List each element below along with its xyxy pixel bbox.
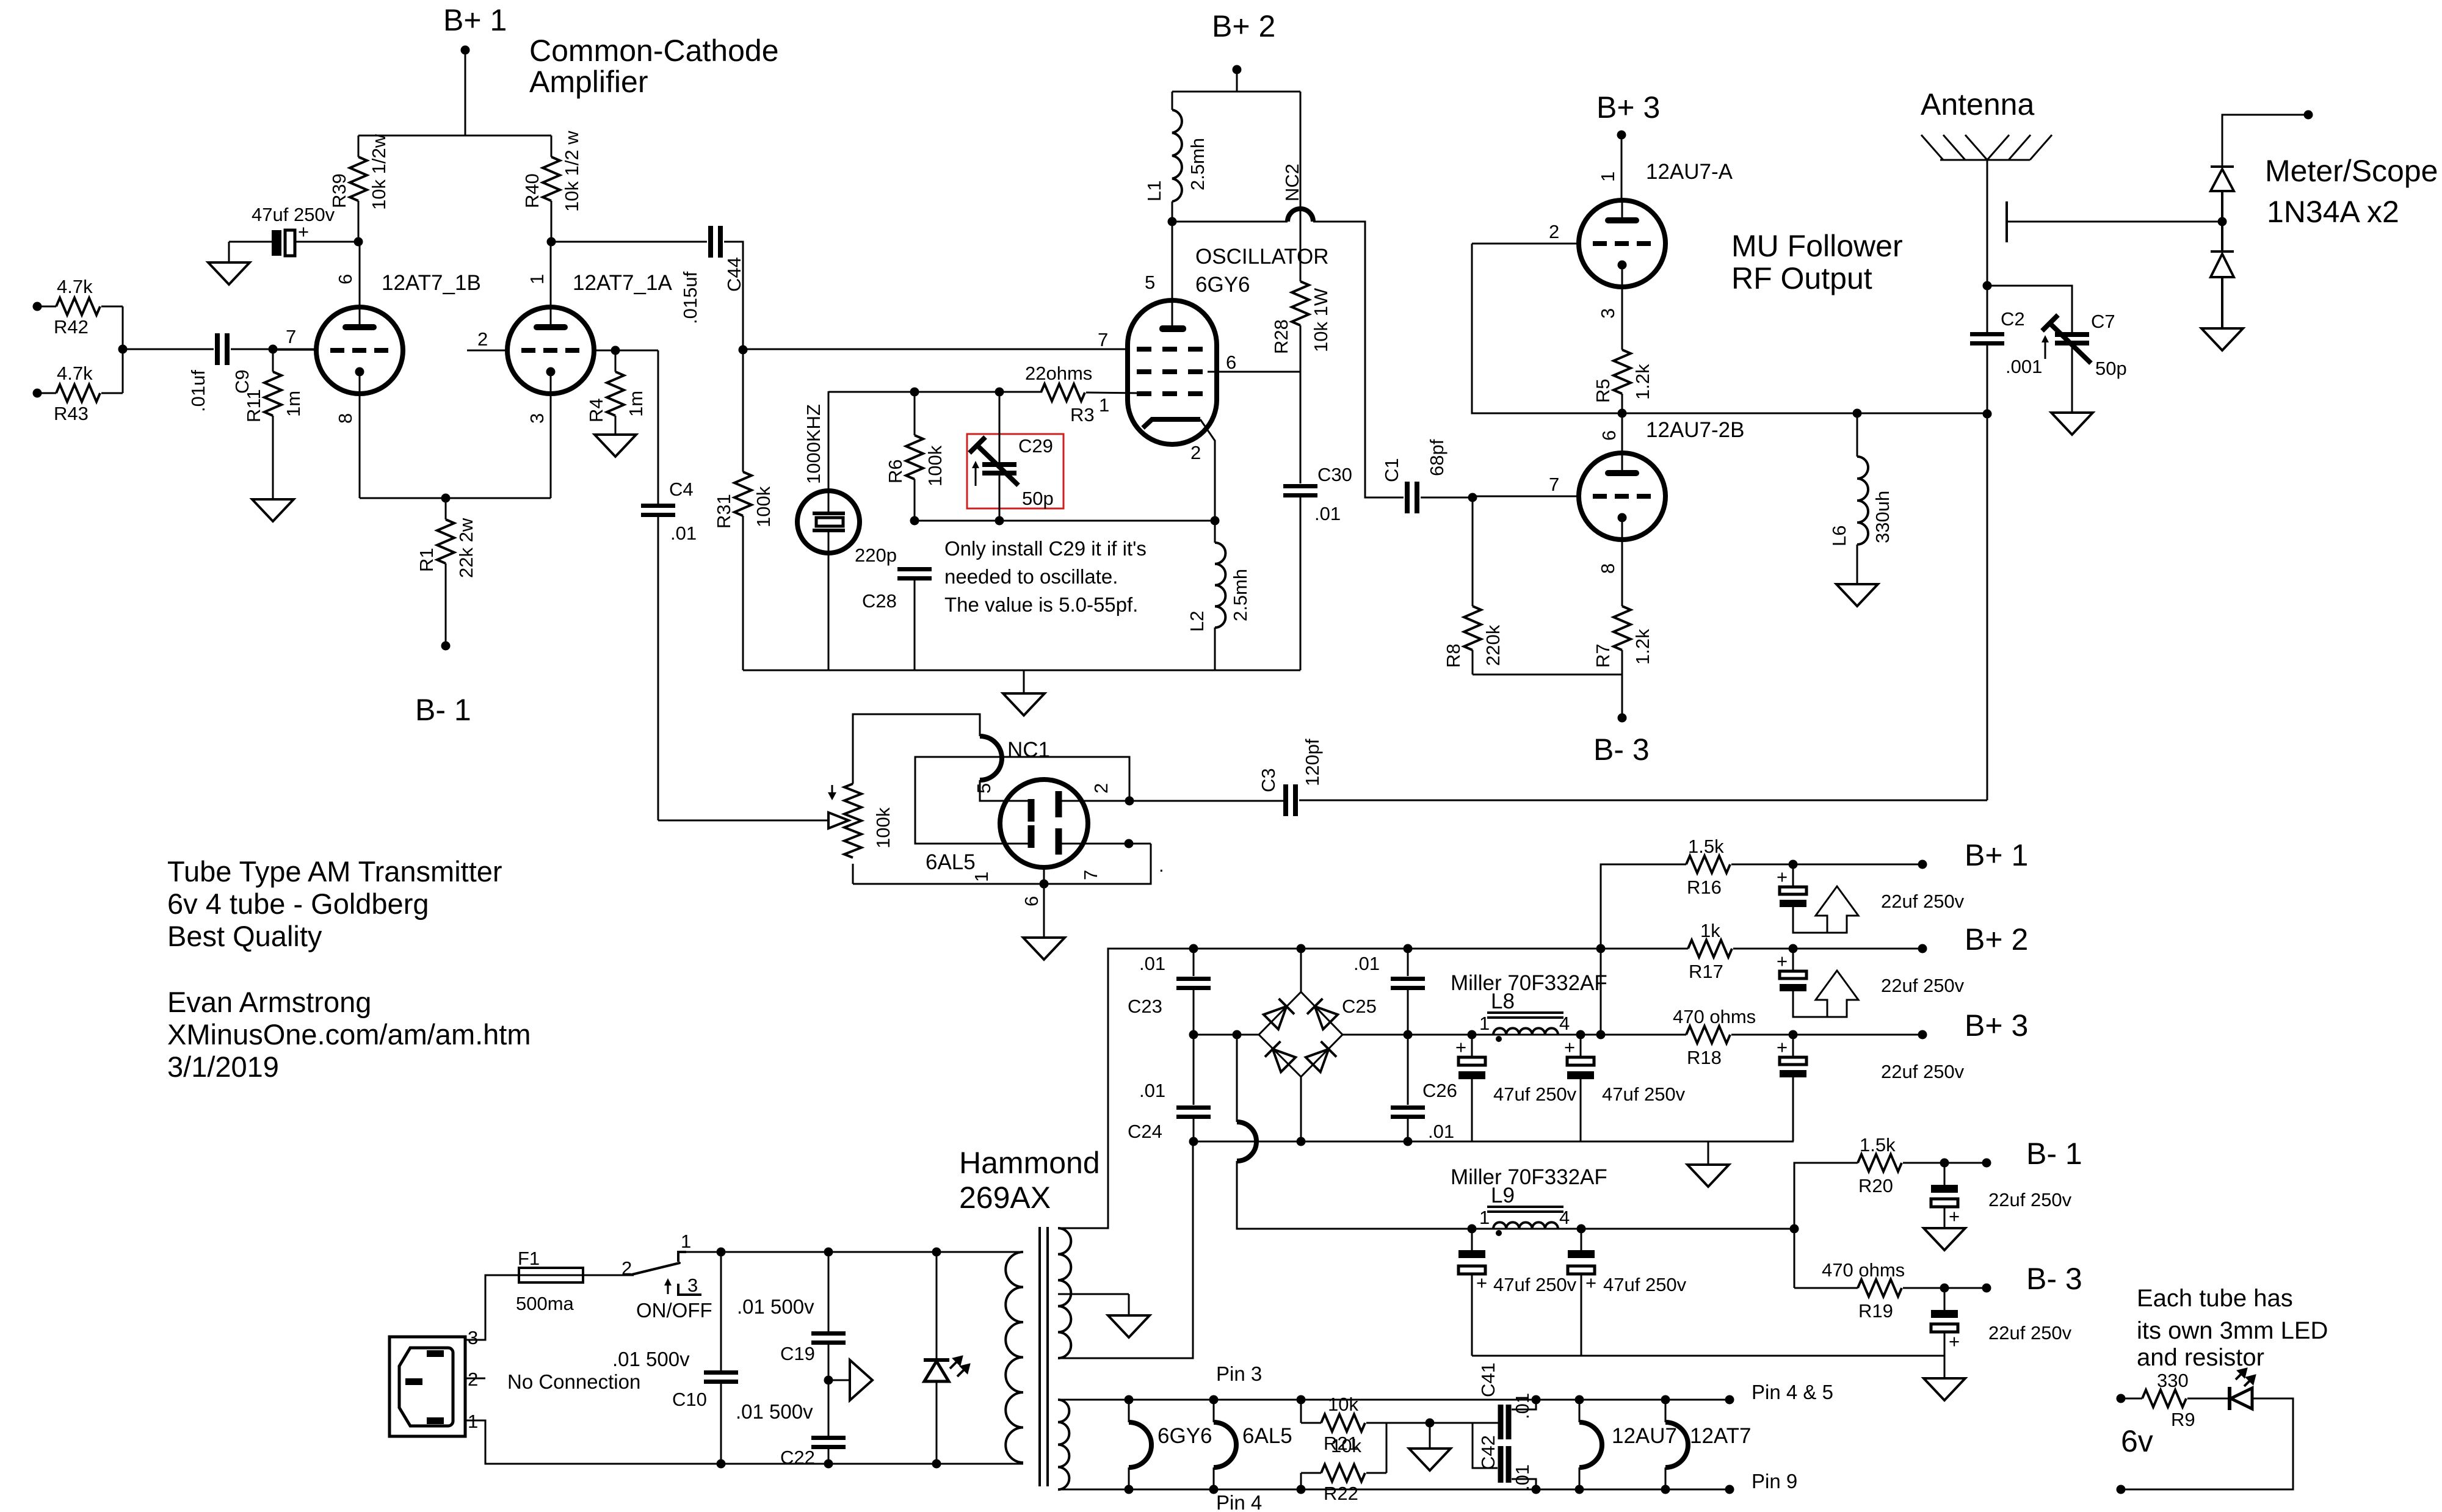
svg-text:R17: R17 <box>1689 961 1723 982</box>
wire oscillator ground bus <box>743 670 1300 671</box>
tube 12AU7-2B <box>1473 413 1665 606</box>
capacitor C41 .01 <box>1477 1362 1536 1439</box>
svg-text:22uf 250v: 22uf 250v <box>1988 1322 2072 1344</box>
svg-text:.: . <box>1159 855 1164 876</box>
svg-text:.01 500v: .01 500v <box>737 1295 814 1318</box>
resistor R19 470 ohms <box>1794 1259 1987 1322</box>
capacitor C1 68pf <box>1381 439 1473 513</box>
node grid 1B <box>269 345 278 354</box>
svg-text:L2: L2 <box>1186 611 1208 632</box>
svg-text:B- 3: B- 3 <box>1593 732 1650 767</box>
ground (B-1 cap) <box>1924 1228 1965 1250</box>
heater 6AL5 <box>1214 1400 1292 1489</box>
svg-text:R9: R9 <box>2171 1409 2195 1430</box>
transformer primary winding <box>1005 1252 1023 1463</box>
svg-text:2: 2 <box>621 1257 632 1279</box>
svg-text:R40: R40 <box>521 173 543 208</box>
diode bridge D bottom-right <box>1305 1041 1336 1073</box>
node C44 output junction <box>739 345 748 355</box>
svg-text:RF Output: RF Output <box>1731 261 1872 295</box>
wire antenna lead <box>1987 160 1988 332</box>
svg-text:100k: 100k <box>753 486 774 527</box>
node B- 3 (mu follower) <box>1593 714 1650 767</box>
svg-text:.015uf: .015uf <box>679 271 701 324</box>
wire DC minus rail <box>1189 1030 1259 1040</box>
node B- 1 (amp) <box>415 642 471 728</box>
svg-text:C28: C28 <box>862 590 897 612</box>
svg-text:C42: C42 <box>1477 1435 1499 1470</box>
svg-text:6AL5: 6AL5 <box>926 850 976 874</box>
svg-text:7: 7 <box>1080 870 1101 880</box>
node cathode junction <box>441 494 451 503</box>
svg-text:1: 1 <box>1099 394 1109 416</box>
wire inlet pin3 to fuse <box>465 1275 519 1340</box>
resistor R17 1k <box>1596 920 1923 982</box>
svg-text:330: 330 <box>2157 1370 2189 1391</box>
ground (B+ filter bus) <box>1687 1141 1729 1187</box>
tube 12AT7_1B U1B <box>273 242 481 498</box>
svg-text:Meter/Scope: Meter/Scope <box>2265 154 2438 188</box>
diode bridge D bottom-left <box>1265 1041 1296 1073</box>
svg-text:220p: 220p <box>855 544 897 566</box>
label OSCILLATOR 6GY6 <box>1195 245 1329 297</box>
svg-text:Pin 4 & 5: Pin 4 & 5 <box>1752 1381 1833 1403</box>
svg-text:+: + <box>1564 1036 1575 1058</box>
potentiometer 100k <box>658 714 980 884</box>
node B+ 2 <box>1212 9 1275 92</box>
node C23 top <box>1189 944 1198 953</box>
svg-text:.01: .01 <box>1512 1464 1533 1491</box>
resistor R43 4.7k <box>33 363 123 424</box>
svg-text:C1: C1 <box>1381 458 1402 482</box>
node C29 bottom <box>995 516 1004 526</box>
LED (tube indicator) <box>2230 1369 2255 1410</box>
svg-text:and resistor: and resistor <box>2137 1344 2264 1371</box>
node pin6 junction <box>1040 867 1049 938</box>
wire input join <box>118 306 214 393</box>
svg-text:22uf 250v: 22uf 250v <box>1881 891 1965 912</box>
resistor R1 22k 2w <box>416 498 477 646</box>
capacitor C10 .01 500v <box>612 1252 738 1464</box>
svg-text:6: 6 <box>1021 896 1042 906</box>
capacitor 22uf 250v (B+2) <box>1777 949 1965 1017</box>
ground (47uf cap) <box>208 262 250 284</box>
svg-text:.01 500v: .01 500v <box>736 1400 813 1423</box>
label 12AU7-2B <box>1598 418 1744 442</box>
wire inlet pin2 stub <box>465 1378 485 1380</box>
svg-text:R20: R20 <box>1858 1175 1893 1196</box>
node terminal B+ 3 <box>1918 1008 2029 1043</box>
node R6 top <box>910 388 919 397</box>
svg-text:22ohms: 22ohms <box>1025 363 1092 384</box>
transformer T1 Hammond 269AX <box>1040 1227 1048 1486</box>
svg-text:.01uf: .01uf <box>187 370 209 412</box>
wire antenna down to C3 row <box>1987 414 1988 800</box>
node mid junction <box>1618 409 1627 418</box>
capacitor C28 220p <box>855 544 932 670</box>
switch SW1 ON/OFF <box>621 1231 712 1322</box>
wire bridge out to L8/R18 row <box>1342 1030 1686 1040</box>
diode bridge D top-left <box>1263 999 1294 1030</box>
resistor R4 1m <box>585 350 647 435</box>
node 6v - terminal <box>2117 1485 2126 1494</box>
svg-text:Miller 70F332AF: Miller 70F332AF <box>1451 1165 1607 1189</box>
resistor R31 100k <box>713 350 774 670</box>
note Each tube has its own 3mm LED and resistor <box>2137 1285 2328 1371</box>
svg-text:269AX: 269AX <box>959 1181 1051 1215</box>
node bridge top feed <box>1297 944 1306 953</box>
crystal Y1 1000KHZ <box>797 391 860 670</box>
svg-text:+: + <box>1777 866 1788 888</box>
resistor R21 10k <box>1301 1394 1498 1456</box>
svg-text:+: + <box>298 221 309 242</box>
wire NC1 hop <box>980 736 1050 801</box>
svg-text:12AU7-A: 12AU7-A <box>1646 160 1733 184</box>
svg-text:5: 5 <box>973 783 995 794</box>
svg-text:Pin 3: Pin 3 <box>1216 1362 1262 1385</box>
wire B+1 feed <box>465 50 466 136</box>
capacitor 47uf 250v (L9 out) <box>1568 1229 1687 1356</box>
node meter mid junction <box>2218 217 2227 226</box>
ground (L6) <box>1836 584 1878 606</box>
svg-text:2: 2 <box>1090 783 1112 794</box>
svg-text:2: 2 <box>477 328 488 350</box>
AC inlet connector J1 <box>389 1327 478 1436</box>
node B+ 1 (top) <box>443 3 507 55</box>
node B+1 cap junction <box>1789 860 1798 869</box>
svg-text:Antenna: Antenna <box>1921 87 2034 121</box>
heater 12AU7 <box>1579 1400 1677 1489</box>
svg-text:8: 8 <box>1597 563 1618 574</box>
svg-text:needed to oscillate.: needed to oscillate. <box>944 565 1118 588</box>
svg-text:ON/OFF: ON/OFF <box>636 1299 712 1322</box>
tube 6GY6 oscillator <box>1098 222 1236 521</box>
node B+3 cap junction <box>1789 1030 1798 1040</box>
svg-text:Best Quality: Best Quality <box>167 920 322 952</box>
svg-text:1: 1 <box>1597 172 1618 182</box>
svg-text:3: 3 <box>687 1275 698 1296</box>
svg-text:R4: R4 <box>585 398 607 422</box>
svg-text:C7: C7 <box>2091 311 2115 332</box>
svg-text:7: 7 <box>286 326 296 347</box>
wire HV top rail <box>1058 949 1601 1228</box>
svg-text:C44: C44 <box>723 257 745 292</box>
svg-text:L6: L6 <box>1828 526 1850 546</box>
node terminal B- 1 <box>1982 1137 2082 1171</box>
svg-text:Tube Type AM Transmitter: Tube Type AM Transmitter <box>167 855 502 888</box>
wire AC bottom bus <box>717 1460 941 1469</box>
svg-text:6: 6 <box>1598 430 1620 441</box>
resistor R6 100k <box>885 392 946 521</box>
svg-text:100k: 100k <box>872 807 894 848</box>
svg-text:1m: 1m <box>625 391 647 417</box>
node plate 1B junction <box>354 237 363 247</box>
node B-1 cap junction <box>1940 1159 1949 1168</box>
svg-text:12AT7_1B: 12AT7_1B <box>382 271 481 295</box>
svg-text:1: 1 <box>681 1231 691 1252</box>
node terminal B+ 2 <box>1918 922 2029 957</box>
label Hammond 269AX <box>959 1146 1100 1215</box>
svg-text:R19: R19 <box>1858 1300 1893 1322</box>
resistor R3 22ohms <box>1025 363 1139 425</box>
wire B- ground bus <box>1472 1355 1944 1357</box>
svg-text:Each tube has: Each tube has <box>2137 1285 2293 1312</box>
svg-text:C10: C10 <box>672 1389 707 1410</box>
svg-text:1: 1 <box>526 274 548 284</box>
svg-text:1N34A x2: 1N34A x2 <box>2267 195 2399 229</box>
svg-text:C3: C3 <box>1258 768 1279 792</box>
node C25 top <box>1404 944 1413 953</box>
svg-text:10k 1W: 10k 1W <box>1310 288 1332 352</box>
node C1 out junction <box>1468 493 1477 502</box>
svg-text:+: + <box>1949 1206 1960 1227</box>
wire cathode bus <box>360 497 551 499</box>
svg-text:L1: L1 <box>1143 181 1165 201</box>
inductor L8 Miller 70F332AF <box>1451 971 1607 1042</box>
svg-text:B+ 1: B+ 1 <box>443 3 507 37</box>
ground (B- bus) <box>1924 1378 1965 1400</box>
svg-text:R31: R31 <box>713 494 734 529</box>
svg-text:50p: 50p <box>1022 488 1054 509</box>
wire LED return loop <box>2121 1398 2293 1489</box>
resistor R9 330 <box>2121 1370 2228 1430</box>
note text C29 install <box>944 537 1147 616</box>
resistor R42 4.7k <box>33 276 123 338</box>
svg-text:R22: R22 <box>1324 1483 1358 1504</box>
wire to oscillator grid pin 7 <box>743 349 1128 350</box>
svg-text:C4: C4 <box>669 479 694 500</box>
svg-text:2: 2 <box>1190 442 1201 463</box>
ground (C7) <box>2051 413 2093 435</box>
svg-text:47uf 250v: 47uf 250v <box>1493 1274 1577 1295</box>
wire heater top bus Pin 3 <box>1058 1395 1730 1405</box>
capacitor 22uf 250v (B-3) <box>1931 1288 2072 1378</box>
ground (R11) <box>252 499 294 521</box>
wire NC2 hop to C1 branch <box>1172 164 1404 497</box>
svg-text:L8: L8 <box>1491 989 1515 1013</box>
svg-text:7: 7 <box>1549 474 1559 495</box>
wire B+2 top bus <box>1172 91 1300 93</box>
svg-text:its own 3mm LED: its own 3mm LED <box>2137 1317 2328 1344</box>
capacitor 47uf 250v (L8 in) <box>1455 1035 1577 1141</box>
svg-text:5: 5 <box>1145 272 1155 293</box>
svg-text:R3: R3 <box>1070 404 1095 425</box>
svg-text:.001: .001 <box>2005 356 2042 377</box>
ground (meter) <box>2201 328 2243 350</box>
capacitor C44 .015uf <box>551 226 745 350</box>
svg-text:2.5mh: 2.5mh <box>1187 138 1208 190</box>
wire pin6 to R28 line <box>1208 371 1300 373</box>
ground (R4) <box>595 435 636 457</box>
svg-text:The value is 5.0-55pf.: The value is 5.0-55pf. <box>944 593 1138 616</box>
wire pin1 loop <box>915 757 1129 844</box>
svg-text:C25: C25 <box>1342 996 1377 1017</box>
svg-text:12AU7-2B: 12AU7-2B <box>1646 418 1744 442</box>
svg-text:3/1/2019: 3/1/2019 <box>167 1051 279 1083</box>
resistor R11 1m <box>243 349 304 499</box>
svg-text:B+ 1: B+ 1 <box>1965 838 2028 872</box>
svg-text:3: 3 <box>526 413 548 424</box>
svg-text:4.7k: 4.7k <box>57 363 93 384</box>
svg-text:B+ 3: B+ 3 <box>1596 90 1660 125</box>
capacitor C24 .01 <box>1128 1035 1211 1142</box>
svg-text:4: 4 <box>1559 1207 1570 1228</box>
svg-text:6GY6: 6GY6 <box>1158 1424 1212 1448</box>
svg-text:2.5mh: 2.5mh <box>1230 569 1251 621</box>
svg-text:C19: C19 <box>780 1343 815 1364</box>
svg-text:R28: R28 <box>1270 319 1292 354</box>
svg-text:22uf 250v: 22uf 250v <box>1881 975 1965 996</box>
node terminal B- 3 <box>1982 1262 2082 1296</box>
resistor R8 220k <box>1443 497 1504 675</box>
svg-text:1m: 1m <box>283 391 304 417</box>
capacitor C22 .01 500v <box>736 1400 846 1468</box>
svg-text:B- 1: B- 1 <box>2026 1137 2082 1171</box>
resistor R22 10k <box>1301 1423 1386 1504</box>
svg-text:+: + <box>1949 1331 1960 1352</box>
ground (6AL5) <box>1023 938 1065 960</box>
svg-text:.01: .01 <box>1512 1393 1533 1419</box>
capacitor C30 .01 <box>1283 464 1352 670</box>
svg-text:1.5k: 1.5k <box>1688 836 1724 857</box>
ground (heater network) <box>1409 1423 1451 1470</box>
svg-text:6: 6 <box>335 274 356 284</box>
svg-text:C22: C22 <box>780 1447 815 1468</box>
svg-text:C26: C26 <box>1422 1080 1457 1101</box>
capacitor C7 50p trimmer <box>1987 286 2127 413</box>
svg-text:NC1: NC1 <box>1007 738 1050 762</box>
wire mid bus to antenna <box>1622 413 1987 414</box>
capacitor C4 .01 <box>641 350 697 820</box>
svg-text:C29: C29 <box>1018 435 1053 457</box>
svg-text:+: + <box>1777 950 1788 972</box>
svg-text:1.2k: 1.2k <box>1632 629 1653 665</box>
LED pilot lamp <box>924 1252 969 1464</box>
svg-text:470 ohms: 470 ohms <box>1822 1259 1905 1281</box>
svg-text:2: 2 <box>1549 221 1559 242</box>
label Meter/Scope 1N34A x2 <box>2265 154 2438 229</box>
tube 12AT7_1A U1A <box>467 242 672 498</box>
svg-text:MU Follower: MU Follower <box>1731 229 1903 263</box>
svg-text:6: 6 <box>1226 352 1236 373</box>
svg-text:47uf 250v: 47uf 250v <box>1603 1274 1687 1295</box>
svg-text:22k 2w: 22k 2w <box>455 518 477 578</box>
wire L9 row <box>1468 1224 1799 1234</box>
svg-text:50p: 50p <box>2095 358 2127 379</box>
ground (HV center tap) <box>1108 1315 1150 1337</box>
resistor R28 10k 1W <box>1270 92 1332 483</box>
svg-text:470 ohms: 470 ohms <box>1673 1006 1756 1027</box>
svg-text:R42: R42 <box>54 316 89 338</box>
node C28 top <box>910 516 919 526</box>
svg-text:68pf: 68pf <box>1426 439 1447 476</box>
capacitor C23 .01 <box>1128 949 1211 1035</box>
svg-text:120pf: 120pf <box>1302 739 1323 786</box>
node grid 1A / R4 <box>611 346 620 355</box>
node C29 top <box>995 388 1004 397</box>
svg-text:1.5k: 1.5k <box>1860 1134 1896 1156</box>
svg-text:B+ 3: B+ 3 <box>1965 1008 2028 1043</box>
diode D1 1N34A <box>2211 167 2234 221</box>
wire pin2 row to C3 <box>1062 797 1284 806</box>
svg-text:.01: .01 <box>1139 1080 1165 1101</box>
resistor R18 470 ohms <box>1673 1006 1922 1068</box>
svg-text:330uh: 330uh <box>1872 491 1893 543</box>
svg-text:Common-Cathode: Common-Cathode <box>529 34 779 68</box>
svg-text:B+ 2: B+ 2 <box>1212 9 1275 43</box>
svg-text:1: 1 <box>971 872 992 882</box>
transformer HV secondary winding <box>1058 1141 1193 1358</box>
capacitor C25 .01 <box>1342 949 1425 1035</box>
svg-text:6v: 6v <box>2121 1424 2153 1458</box>
capacitor 47uf 250v (L8 out) <box>1564 1035 1686 1141</box>
bridge rectifier <box>1259 949 1342 1141</box>
node C19/C22 midpoint <box>824 1376 833 1385</box>
wire oscillator feedback row <box>915 520 1215 522</box>
svg-text:OSCILLATOR: OSCILLATOR <box>1195 245 1329 269</box>
wire grid A loop <box>1472 244 1622 413</box>
wire R8/R7 bottoms <box>1473 675 1622 718</box>
node B+2 cap junction <box>1789 944 1798 953</box>
node terminal Pin 9 <box>1725 1470 1798 1494</box>
probe tick to meter <box>2007 201 2222 242</box>
svg-text:C24: C24 <box>1128 1121 1162 1142</box>
tube 12AU7-A <box>1472 160 1733 350</box>
node B+ 3 (top) <box>1596 90 1660 201</box>
heater 6GY6 <box>1129 1400 1212 1489</box>
svg-text:Pin 9: Pin 9 <box>1752 1470 1797 1492</box>
svg-text:10k 1/2w: 10k 1/2w <box>368 134 389 210</box>
svg-text:.01: .01 <box>1428 1121 1454 1142</box>
capacitor C19 .01 500v <box>737 1252 846 1436</box>
capacitor 22uf 250v (B+1) <box>1777 864 1965 933</box>
svg-text:12AT7: 12AT7 <box>1690 1424 1752 1448</box>
svg-text:R8: R8 <box>1443 643 1464 668</box>
svg-text:47uf 250v: 47uf 250v <box>1602 1083 1686 1105</box>
svg-text:XMinusOne.com/am/am.htm: XMinusOne.com/am/am.htm <box>167 1018 531 1051</box>
ground (oscillator bus) <box>1003 670 1045 715</box>
wire plate supply bus <box>358 135 551 137</box>
svg-text:C30: C30 <box>1317 464 1352 485</box>
svg-text:6v 4 tube - Goldberg: 6v 4 tube - Goldberg <box>167 888 429 920</box>
svg-text:B- 3: B- 3 <box>2026 1262 2082 1296</box>
svg-text:.01: .01 <box>1139 953 1165 974</box>
capacitor 47uf 250v (cathode bypass) <box>229 204 358 262</box>
wire B- ladder vertical <box>1794 1163 1858 1288</box>
label MU Follower RF Output <box>1731 229 1903 295</box>
svg-text:Amplifier: Amplifier <box>529 65 648 99</box>
svg-text:1: 1 <box>1479 1013 1490 1034</box>
svg-text:C23: C23 <box>1128 996 1162 1017</box>
diode D2 1N34A <box>2211 222 2234 328</box>
svg-text:Miller 70F332AF: Miller 70F332AF <box>1451 971 1607 995</box>
transformer heater winding <box>1058 1400 1069 1489</box>
svg-text:4.7k: 4.7k <box>57 276 93 297</box>
svg-text:Only install C29 it if it's: Only install C29 it if it's <box>944 537 1147 560</box>
resistor R39 10k 1/2w <box>328 134 389 242</box>
wire B+ filter ground bus <box>1189 1137 1794 1146</box>
svg-text:+: + <box>1476 1272 1487 1293</box>
svg-text:No Connection: No Connection <box>507 1370 640 1393</box>
svg-text:.01: .01 <box>670 523 697 544</box>
svg-text:L9: L9 <box>1491 1184 1515 1207</box>
svg-text:.01: .01 <box>1314 503 1341 524</box>
node plate 1A junction <box>547 237 556 247</box>
svg-text:8: 8 <box>335 413 356 424</box>
wire AC top bus <box>686 1248 1023 1257</box>
svg-text:3: 3 <box>468 1327 478 1348</box>
svg-text:47uf 250v: 47uf 250v <box>1493 1083 1577 1105</box>
